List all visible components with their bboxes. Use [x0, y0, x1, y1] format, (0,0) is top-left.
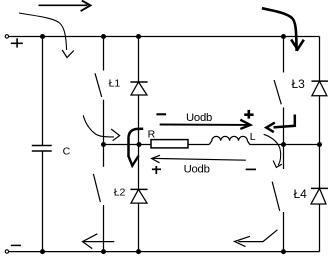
svg-text:Ł4: Ł4 [294, 187, 308, 201]
svg-text:L: L [250, 131, 256, 143]
svg-text:R: R [148, 129, 156, 141]
svg-text:Ł1: Ł1 [109, 78, 121, 90]
svg-text:Ł2: Ł2 [114, 187, 126, 199]
svg-text:Ł3: Ł3 [292, 77, 306, 91]
svg-text:Uodb: Uodb [186, 112, 212, 124]
svg-text:C: C [63, 146, 71, 158]
svg-text:Uodb: Uodb [184, 164, 210, 176]
